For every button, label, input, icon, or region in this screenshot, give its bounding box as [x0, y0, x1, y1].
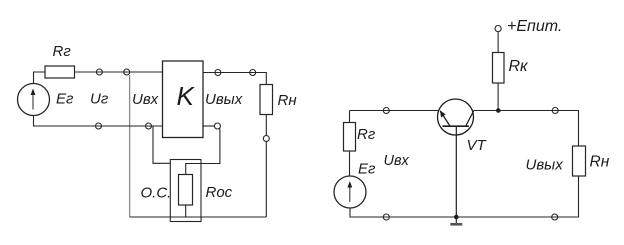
wire feedback left — [153, 126, 170, 163]
wire Rк to collector node — [497, 83, 499, 111]
resistor Rн — [260, 85, 273, 115]
svg-text:+Епит.: +Епит. — [507, 18, 562, 35]
terminal bottom left right circuit — [383, 214, 389, 220]
source Ег right circuit — [334, 176, 366, 208]
wire supply to Rк — [497, 32, 499, 53]
terminal input top left — [96, 69, 102, 75]
terminal input bottom right — [146, 123, 152, 129]
wire Rн bottom — [265, 115, 267, 136]
wire source top to Rг — [34, 72, 46, 84]
wire amplifier output top to Rн — [203, 73, 266, 85]
wire feedback right — [186, 129, 220, 175]
wire vertical tap down — [129, 75, 131, 217]
wire source bottom to amplifier input bottom — [34, 116, 163, 127]
wire Rг to amplifier input top — [75, 71, 163, 73]
source Eг — [18, 84, 50, 116]
resistor Rк — [493, 53, 505, 84]
terminal input right circuit — [383, 108, 389, 114]
svg-text:Rк: Rк — [509, 58, 530, 75]
terminal output top left — [215, 70, 221, 76]
feedback block О.С. — [170, 160, 201, 222]
wire amplifier output bottom — [203, 125, 214, 127]
wire input node to transistor — [350, 110, 440, 112]
wire bottom rail right circuit — [350, 176, 579, 217]
svg-text:Rг: Rг — [357, 126, 376, 143]
svg-text:K: K — [177, 81, 196, 111]
wire Rос bottom lead — [185, 205, 187, 217]
terminal output bottom — [214, 123, 220, 129]
junction ground node — [454, 215, 459, 220]
terminal output right circuit — [552, 108, 558, 114]
wire Rг to source — [349, 151, 351, 176]
svg-text:VT: VT — [467, 137, 488, 154]
resistor Rг — [45, 66, 75, 78]
terminal +Eпит — [495, 26, 501, 32]
svg-text:Ег: Ег — [358, 160, 376, 177]
svg-text:Uг: Uг — [90, 91, 109, 108]
svg-text:О.С.: О.С. — [141, 185, 172, 202]
resistor Rос — [179, 175, 193, 206]
amplifier K — [163, 61, 204, 138]
terminal bottom right right circuit — [552, 214, 558, 220]
wire input corner down to Rг — [349, 111, 351, 123]
svg-text:Rг: Rг — [53, 43, 72, 60]
svg-text:Uвых: Uвых — [526, 157, 564, 174]
svg-text:Uвх: Uвх — [384, 153, 410, 169]
junction collector node — [496, 108, 501, 113]
terminal load bottom — [263, 136, 269, 142]
terminal input top right — [124, 69, 130, 75]
svg-text:Rн: Rн — [590, 154, 610, 171]
svg-text:Rн: Rн — [278, 92, 297, 109]
svg-text:Uвых: Uвых — [205, 91, 243, 108]
wire load to bottom run — [265, 142, 267, 218]
wire collector run — [474, 111, 579, 147]
transistor VT — [438, 99, 474, 217]
resistor Rн right circuit — [573, 146, 586, 176]
ground — [450, 217, 462, 224]
resistor Rг right circuit — [344, 123, 356, 152]
terminal input bottom left — [96, 123, 102, 129]
svg-text:Ег: Ег — [56, 91, 74, 108]
terminal output top right — [250, 70, 256, 76]
svg-text:Rос: Rос — [206, 184, 233, 201]
wire bottom run — [130, 216, 267, 218]
svg-text:Uвх: Uвх — [132, 91, 159, 108]
